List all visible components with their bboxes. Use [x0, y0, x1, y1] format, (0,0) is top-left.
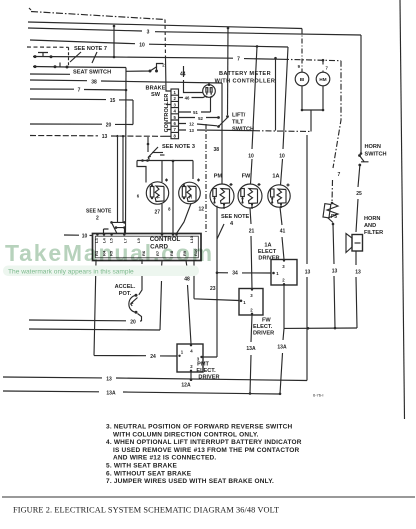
svg-text:FW: FW: [242, 174, 251, 180]
footer rule: [2, 496, 415, 498]
card pin labels bottom: [94, 248, 198, 256]
svg-text:48: 48: [184, 277, 190, 283]
svg-text:13: 13: [102, 134, 108, 140]
svg-text:6. WITHOUT SEAT BRAKE: 6. WITHOUT SEAT BRAKE: [106, 470, 192, 477]
wire 51: [179, 98, 211, 113]
wire 38: [30, 80, 222, 83]
wire 13 below horn filter: [356, 251, 357, 329]
wire A drop to lift tilt x228: [227, 28, 230, 115]
svg-text:BATTERY METER: BATTERY METER: [219, 71, 271, 77]
FW elect driver box: [239, 288, 263, 315]
svg-text:BI: BI: [300, 77, 305, 82]
svg-text:AND WIRE #12 IS CONNECTED.: AND WIRE #12 IS CONNECTED.: [113, 455, 216, 462]
contactor PM: [210, 183, 234, 209]
lift tilt switch: [217, 110, 311, 132]
svg-text:1A: 1A: [272, 174, 279, 180]
svg-text:DRIVER: DRIVER: [258, 256, 279, 262]
svg-text:FIGURE 2. ELECTRICAL SYSTEM SC: FIGURE 2. ELECTRICAL SYSTEM SCHEMATIC DI…: [13, 506, 279, 515]
svg-text:13: 13: [189, 128, 194, 133]
see note 4 arrow: [217, 224, 224, 239]
svg-text:27: 27: [154, 210, 160, 216]
svg-text:FILTER: FILTER: [364, 230, 383, 236]
svg-text:4: 4: [190, 349, 193, 354]
svg-text:10: 10: [139, 43, 145, 49]
svg-text:ACCEL.: ACCEL.: [115, 284, 136, 290]
top-left tick: [29, 8, 31, 10]
svg-text:TakeManual.com: TakeManual.com: [5, 240, 214, 266]
wire stub y74: [30, 73, 70, 75]
BI indicator: [295, 72, 309, 111]
wire 13A right drop: [279, 328, 284, 395]
svg-text:ELECT.: ELECT.: [253, 324, 273, 330]
svg-text:2: 2: [162, 63, 165, 68]
wire 15: [30, 99, 133, 125]
svg-text:44: 44: [180, 72, 186, 78]
wire 10 drop to 1A x282: [281, 47, 289, 185]
svg-text:6: 6: [174, 121, 177, 126]
svg-text:12: 12: [198, 207, 204, 213]
svg-text:24: 24: [150, 354, 156, 360]
svg-text:PMT: PMT: [197, 362, 209, 368]
contactor 1A: [268, 184, 290, 209]
svg-text:8: 8: [174, 133, 177, 138]
wire 46: [179, 96, 207, 98]
svg-text:1: 1: [174, 90, 177, 95]
svg-text:3: 3: [174, 102, 177, 107]
1A elect driver box: [271, 259, 297, 285]
wire 12 below P5: [333, 224, 335, 328]
svg-text:POT.: POT.: [119, 291, 132, 297]
svg-text:6: 6: [137, 194, 140, 199]
P5 resistor: [323, 202, 338, 226]
svg-text:ELECT.: ELECT.: [196, 368, 216, 374]
wire 7 long from seat switch: [113, 26, 341, 62]
wire bus y328: [284, 327, 357, 330]
wire 27 F drop: [161, 204, 163, 234]
wire jumper top dash-dot: [31, 12, 171, 92]
svg-text:HM: HM: [319, 77, 326, 82]
svg-text:6-76-I: 6-76-I: [313, 393, 323, 398]
controller label vertical: [164, 94, 170, 133]
svg-text:13A: 13A: [106, 390, 116, 396]
svg-text:DRIVER: DRIVER: [198, 375, 219, 381]
svg-text:SEE NOTE: SEE NOTE: [221, 214, 250, 220]
svg-text:R: R: [189, 195, 193, 200]
seat switch contacts row2: [33, 63, 126, 69]
svg-text:AND: AND: [364, 223, 376, 229]
wire 13A bottom long: [3, 391, 279, 394]
svg-text:5. WITH SEAT BRAKE: 5. WITH SEAT BRAKE: [106, 463, 177, 470]
wire 3: [28, 28, 361, 35]
svg-text:52: 52: [198, 116, 203, 121]
wire 12 dash-dot to card: [205, 124, 207, 234]
wire 44 to key switch: [184, 66, 203, 93]
wire 38 drop to PM x222: [221, 83, 223, 184]
svg-text:7: 7: [326, 66, 329, 71]
contactor FW: [238, 183, 262, 209]
svg-text:TILT: TILT: [232, 120, 244, 126]
svg-text:34: 34: [232, 271, 238, 277]
figure caption: [13, 506, 279, 515]
svg-text:SEE NOTE 3: SEE NOTE 3: [162, 144, 195, 150]
svg-text:13: 13: [332, 269, 338, 275]
svg-text:46: 46: [185, 95, 190, 100]
svg-text:8: 8: [168, 207, 171, 212]
PMT elect driver box: [177, 344, 203, 372]
svg-text:13A: 13A: [246, 346, 256, 352]
wire FW driver feed: [194, 261, 242, 303]
svg-text:13A: 13A: [277, 345, 287, 351]
svg-text:2: 2: [250, 308, 253, 313]
svg-text:15: 15: [110, 98, 116, 104]
svg-text:3: 3: [282, 264, 285, 269]
horn switch: [358, 154, 368, 166]
wire PMT down 12A: [190, 372, 193, 381]
wire 12: [179, 124, 218, 126]
wire 13 bottom long: [3, 377, 307, 381]
svg-text:DRIVER: DRIVER: [253, 331, 274, 337]
svg-text:7: 7: [174, 127, 177, 132]
verticals to jumper plugs above card: [104, 136, 126, 234]
svg-text:10: 10: [279, 154, 285, 160]
wire 8 vertical: [172, 160, 175, 234]
wire 20 lower: [29, 320, 142, 321]
svg-text:23: 23: [210, 286, 216, 292]
watermark TakeManual.com: [5, 240, 214, 266]
svg-text:HORN: HORN: [365, 144, 381, 150]
svg-text:5: 5: [174, 115, 177, 120]
svg-text:1: 1: [276, 271, 279, 276]
svg-text:7. JUMPER WIRES USED WITH SEAT: 7. JUMPER WIRES USED WITH SEAT BRAKE ONL…: [106, 478, 274, 485]
svg-text:HORN: HORN: [364, 216, 380, 222]
svg-text:2: 2: [190, 364, 193, 369]
wire A top: [28, 22, 302, 29]
wire 52: [179, 117, 219, 119]
HM hourmeter: [302, 60, 330, 111]
svg-text:2: 2: [96, 216, 99, 222]
wire 24 drop and feed: [94, 261, 177, 357]
svg-text:WITH CONTROLLER: WITH CONTROLLER: [215, 79, 276, 85]
wire 29 drop: [139, 261, 142, 295]
controller pin numbers: [174, 90, 177, 138]
svg-text:SEE NOTE 7: SEE NOTE 7: [74, 46, 107, 52]
svg-text:25: 25: [356, 191, 362, 197]
svg-text:10: 10: [82, 233, 88, 239]
svg-text:9: 9: [298, 64, 301, 69]
wire 13A FW driver down: [249, 315, 252, 395]
svg-text:PM: PM: [214, 174, 223, 180]
wire 10 top: [30, 40, 288, 48]
wire 20 upper: [30, 123, 133, 126]
wire 10 drop to FW x251: [251, 46, 258, 184]
key switch with battery meter: [203, 83, 216, 97]
svg-text:P5: P5: [331, 214, 337, 220]
svg-text:41: 41: [280, 229, 286, 235]
svg-text:SW: SW: [151, 92, 161, 98]
jumper dashed wire see note 7: [27, 47, 69, 67]
svg-text:1A: 1A: [264, 243, 271, 249]
brake switch contacts: [126, 64, 163, 73]
wire PM drop to PMT pin3: [203, 206, 218, 357]
seat switch contacts row1: [33, 53, 114, 59]
wire BI feed dash-dot: [301, 29, 303, 73]
wire drop x275: [274, 57, 277, 131]
svg-text:The watermark only appears in: The watermark only appears in this sampl…: [8, 269, 134, 276]
wire 1A driver down: [283, 285, 285, 328]
svg-text:ELECT: ELECT: [258, 249, 277, 255]
wire 45 horizontal: [29, 261, 162, 331]
svg-text:SEE NOTE: SEE NOTE: [86, 209, 112, 215]
card text: [150, 236, 181, 251]
svg-text:F: F: [157, 195, 160, 200]
svg-text:21: 21: [249, 229, 255, 235]
controller left stubs: [166, 105, 171, 130]
svg-text:LIFT/: LIFT/: [232, 113, 246, 119]
svg-text:SEAT SWITCH: SEAT SWITCH: [73, 70, 111, 76]
svg-text:51: 51: [193, 110, 198, 115]
wire 25 to horn filter: [356, 166, 360, 232]
svg-text:38: 38: [213, 147, 219, 153]
svg-text:SWITCH: SWITCH: [365, 152, 387, 158]
svg-text:7: 7: [78, 88, 81, 94]
wire 34: [217, 272, 275, 275]
svg-text:7: 7: [237, 57, 240, 63]
svg-text:4. WHEN OPTIONAL LIFT INTERRUP: 4. WHEN OPTIONAL LIFT INTERRUPT BATTERY …: [106, 439, 302, 446]
wire 13 stub: [179, 130, 312, 132]
svg-text:IS USED REMOVE WIRE #13 FROM T: IS USED REMOVE WIRE #13 FROM THE PM CONT…: [113, 447, 300, 454]
contactor R: [179, 179, 201, 204]
wire 48 drop to PMT pin4: [186, 261, 191, 344]
svg-text:1: 1: [243, 300, 246, 305]
svg-text:3: 3: [147, 30, 150, 36]
wire 13 long vertical x307: [306, 135, 308, 381]
card pin labels top: [94, 235, 194, 243]
svg-text:1: 1: [181, 350, 184, 355]
svg-text:38: 38: [91, 79, 97, 85]
note7 arrows: [70, 52, 97, 63]
svg-text:13: 13: [305, 270, 311, 276]
vertical accel-pot feed x126: [125, 68, 128, 234]
card top pin dots: [96, 233, 177, 235]
svg-text:3: 3: [250, 293, 253, 298]
svg-text:20: 20: [106, 123, 112, 129]
accel pot: [129, 294, 142, 321]
horn and filter: [346, 234, 363, 253]
controller connector column: [171, 89, 179, 139]
svg-text:WITH COLUMN DIRECTION CONTROL: WITH COLUMN DIRECTION CONTROL ONLY.: [113, 431, 259, 438]
svg-text:12A: 12A: [181, 383, 191, 389]
svg-text:4: 4: [230, 221, 234, 227]
wire 3 drop to horn switch x361: [360, 35, 363, 155]
right border vertical: [400, 0, 405, 419]
notes text: [106, 424, 302, 486]
wire 10 into card left: [64, 234, 93, 237]
watermark sample strip: [3, 266, 199, 277]
control card: [93, 234, 202, 261]
svg-text:3. NEUTRAL POSITION OF FORWARD: 3. NEUTRAL POSITION OF FORWARD REVERSE S…: [106, 424, 293, 431]
svg-text:FW: FW: [262, 318, 271, 324]
svg-text:2: 2: [174, 96, 177, 101]
svg-text:12: 12: [189, 122, 194, 127]
svg-text:SWITCH: SWITCH: [232, 127, 254, 133]
svg-text:13: 13: [106, 376, 112, 382]
svg-text:4: 4: [174, 109, 177, 114]
wire 41 1A drop: [280, 207, 284, 259]
wire R drop: [177, 204, 192, 234]
svg-text:2: 2: [282, 278, 285, 283]
contactor F: [146, 179, 168, 205]
wire 7 drop to P5 x332: [332, 61, 341, 203]
wire 21 FW drop: [250, 208, 252, 289]
svg-text:20: 20: [130, 319, 136, 325]
tick see note3: [160, 154, 165, 156]
svg-text:13: 13: [355, 270, 361, 276]
svg-text:BRAKE: BRAKE: [146, 86, 166, 92]
wire 7 short: [30, 89, 127, 92]
wire 13 left dash-dot: [30, 135, 171, 137]
svg-text:7: 7: [338, 172, 341, 178]
svg-text:CONTROLLER: CONTROLLER: [164, 94, 170, 133]
svg-text:10: 10: [248, 154, 254, 160]
sensor see note 3: [137, 137, 193, 183]
